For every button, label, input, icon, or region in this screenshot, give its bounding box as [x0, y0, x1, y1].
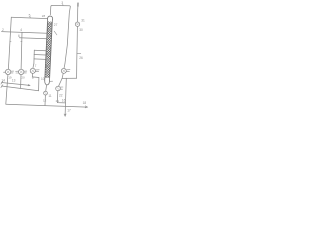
pump P2: [19, 69, 24, 74]
wire R2 continues down: [76, 27, 79, 79]
wire pump1 discharge to header: [6, 75, 8, 105]
svg-text:22: 22: [59, 93, 63, 97]
pump P1: [5, 69, 10, 74]
wire export line L2: [2, 86, 39, 91]
wire pump3 feed: [33, 63, 34, 68]
svg-text:5: 5: [29, 13, 31, 17]
wire comb rail: [33, 50, 35, 63]
pump P4 right stubs: [67, 70, 70, 72]
svg-text:26: 26: [79, 56, 83, 60]
wire pump3 discharge jog: [33, 73, 39, 90]
svg-text:7: 7: [35, 64, 37, 68]
pump P2 right stubs: [24, 71, 27, 73]
wire valve to header: [44, 95, 46, 105]
column C1 bottom dish: [45, 81, 50, 85]
svg-text:3: 3: [61, 1, 63, 5]
pump P5 pot circle: [56, 86, 61, 91]
wire comb branch 1: [34, 49, 46, 52]
svg-text:21: 21: [56, 99, 60, 103]
cut slash L2: [1, 85, 3, 88]
wire column top riser: [50, 6, 52, 15]
svg-text:2: 2: [2, 28, 4, 32]
wire left vertical pump1 feed: [8, 17, 11, 69]
label 3 tick: [62, 4, 64, 5]
pump P2 left stubs: [16, 71, 19, 73]
cut slash L1: [1, 81, 3, 84]
wire comb branch 3: [34, 58, 46, 61]
arrowhead L1: [28, 84, 30, 86]
wire feed y38: [19, 38, 47, 39]
svg-text:14: 14: [1, 79, 5, 83]
valve V1 under column: [44, 91, 48, 95]
wire branch to pot circle: [59, 78, 63, 86]
wire right main downcomer R1: [64, 7, 70, 69]
node tick on second vertical: [21, 40, 22, 42]
svg-text:27: 27: [54, 23, 58, 27]
arrowhead product down: [64, 114, 66, 116]
wire export line L1: [2, 83, 30, 86]
wire comb branch 2: [34, 54, 46, 57]
bottom header: [6, 104, 88, 107]
svg-text:9: 9: [32, 76, 34, 80]
label 5 tick: [29, 17, 31, 18]
pump P4 on downcomer: [61, 68, 66, 73]
column C1 dome: [47, 16, 52, 20]
svg-text:28: 28: [42, 14, 46, 18]
svg-text:12: 12: [43, 99, 47, 103]
wire top horizontal: [52, 6, 70, 7]
svg-text:16: 16: [62, 98, 66, 102]
svg-text:10: 10: [41, 77, 45, 81]
pump P3: [30, 68, 35, 73]
svg-text:4: 4: [20, 28, 22, 32]
wire right feed line R2 top: [77, 3, 79, 22]
pump P1 left stub: [4, 71, 6, 73]
wire pump P4 discharge: [62, 73, 63, 78]
svg-text:6: 6: [18, 34, 20, 38]
pump P3 right stubs: [36, 70, 40, 72]
column C1 shell left wall: [45, 20, 48, 81]
stub label 26: [77, 53, 81, 55]
arrowhead header right: [85, 106, 87, 108]
svg-text:11: 11: [48, 94, 52, 98]
wire product downcomer with arrow: [65, 78, 66, 115]
node tick on left vertical: [10, 40, 11, 42]
wire pump2 feed vertical: [20, 32, 23, 69]
wire bottom collector y78: [62, 77, 77, 79]
column bottom side stub: [50, 80, 53, 82]
column C1 packing hatch: [40, 8, 55, 93]
wire pump2 discharge: [20, 75, 22, 89]
svg-text:18: 18: [83, 101, 87, 105]
svg-text:31: 31: [81, 18, 85, 22]
wire top-left feed horizontal: [11, 17, 47, 18]
svg-text:13: 13: [12, 78, 16, 82]
column C1 shell right wall: [50, 20, 53, 81]
wire mid-left feed y32: [2, 32, 48, 34]
pump P5 right stubs: [60, 87, 63, 89]
wire pot down and jog right: [57, 91, 65, 103]
pump P1 right stubs: [11, 71, 14, 73]
svg-text:20: 20: [21, 76, 25, 80]
leader line near label 27: [54, 31, 57, 35]
wire column bottom outlet: [45, 85, 48, 91]
svg-text:17: 17: [67, 108, 71, 112]
pump P6 on feed R2: [75, 22, 79, 26]
svg-text:30: 30: [79, 28, 83, 32]
